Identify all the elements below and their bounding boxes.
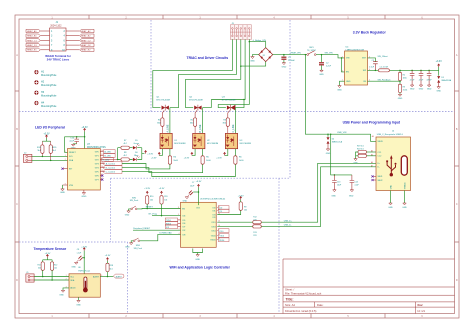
junction: [42, 276, 44, 278]
svg-text:Size: A4: Size: A4: [285, 303, 295, 307]
svg-text:TS_SPST: TS_SPST: [307, 50, 317, 52]
svg-text:A7: A7: [371, 164, 373, 167]
ground: [282, 63, 285, 65]
label RXD0: [165, 221, 177, 225]
hierarchical label HEAT_E1: [26, 48, 40, 52]
svg-text:0_Bridge_24V: 0_Bridge_24V: [253, 39, 267, 42]
svg-text:L1 4.7uH: L1 4.7uH: [380, 67, 389, 69]
svg-text:SW_Feedback: SW_Feedback: [378, 79, 391, 81]
svg-text:2.2uF: 2.2uF: [326, 66, 332, 68]
svg-text:R21: R21: [38, 264, 41, 266]
power +3.3V: [83, 248, 85, 251]
optocoupler U1 MOC3063M: [160, 133, 186, 148]
svg-text:USB Power and Programming Inpu: USB Power and Programming Input: [343, 121, 401, 125]
svg-text:GND: GND: [331, 195, 336, 197]
junction dots: [42, 156, 44, 158]
svg-text:TRIAC and Driver Circuits: TRIAC and Driver Circuits: [187, 56, 229, 60]
svg-text:SW_Push: SW_Push: [130, 200, 138, 202]
LED chain rail right: [142, 148, 145, 160]
wire SW3 to GND: [131, 241, 133, 243]
power +3.3V: [146, 191, 148, 194]
wire pullup join: [42, 138, 50, 141]
svg-text:GND: GND: [419, 89, 424, 91]
svg-text:RXD0: RXD0: [219, 240, 224, 242]
resistor R6 1k00: [234, 149, 236, 156]
H1 text: [41, 70, 57, 77]
svg-text:GND: GND: [349, 195, 354, 197]
wire RESET: [137, 208, 180, 210]
svg-text:TXD0: TXD0: [166, 220, 171, 222]
svg-text:19: 19: [218, 238, 220, 240]
svg-text:USB_D+: USB_D+: [284, 220, 293, 222]
power +3.3V: [197, 184, 199, 187]
wire bridge plus rail: [273, 54, 307, 56]
power +3.3V: [438, 64, 440, 67]
wire IO3 pullup: [217, 210, 240, 214]
svg-text:GND: GND: [282, 67, 287, 69]
svg-text:D: D: [16, 279, 18, 282]
ground: [427, 85, 430, 87]
svg-text:HEAT_C2: HEAT_C2: [81, 39, 91, 42]
svg-text:LMR51430XDDCR: LMR51430XDDCR: [346, 50, 365, 52]
svg-text:A6: A6: [371, 161, 373, 164]
svg-text:IO8: IO8: [182, 234, 185, 236]
no-connect GP6 GP7: [101, 175, 103, 177]
wire A_Control run: [122, 164, 170, 169]
svg-text:ALERT: ALERT: [93, 275, 100, 278]
junction: [83, 257, 85, 259]
ground: [333, 190, 336, 192]
svg-text:GND: GND: [71, 266, 76, 268]
J4 shield pins to GND: [391, 191, 405, 204]
U5 right pin stubs: [217, 207, 218, 239]
triac Q1: [156, 96, 170, 118]
svg-text:R22: R22: [54, 264, 57, 266]
svg-text:Peripheral_RESET: Peripheral_RESET: [133, 228, 151, 230]
connector J1: [50, 21, 67, 51]
svg-text:IO4: IO4: [182, 216, 185, 218]
svg-text:Id: 1/1: Id: 1/1: [418, 309, 426, 313]
svg-text:IO9: IO9: [166, 227, 169, 229]
wire C10 to GND: [73, 143, 77, 146]
ground: [251, 57, 254, 59]
svg-text:R18: R18: [110, 265, 113, 267]
svg-text:IO9: IO9: [212, 217, 215, 219]
svg-text:Temperature Sensor: Temperature Sensor: [34, 247, 67, 251]
border zone ticks left: [15, 91, 19, 242]
resistor R9: [239, 202, 242, 210]
svg-text:R13: R13: [253, 232, 256, 234]
border zone ticks top: [89, 15, 385, 19]
label R_LED: [102, 158, 114, 162]
ground: [72, 144, 75, 146]
junction: [327, 133, 329, 135]
svg-text:HEAT_B1: HEAT_B1: [27, 35, 37, 38]
svg-text:3V3: 3V3: [196, 207, 199, 209]
svg-text:GND: GND: [59, 294, 64, 296]
svg-text:SW2: SW2: [132, 198, 136, 200]
svg-text:IO2: IO2: [182, 230, 185, 232]
svg-text:3.3V Buck Regulator: 3.3V Buck Regulator: [353, 31, 387, 35]
svg-text:+3.3V: +3.3V: [144, 188, 150, 190]
wire CC pulldown join: [356, 152, 358, 159]
wire USB_VIN: [305, 55, 376, 142]
svg-text:RESET: RESET: [146, 207, 154, 209]
svg-text:C8: C8: [77, 249, 79, 251]
svg-text:DOWNLOAD: DOWNLOAD: [160, 231, 173, 234]
svg-text:RESET: RESET: [69, 152, 76, 154]
resistor R2 divider top: [399, 70, 401, 84]
J4 SBU pin stubs no-connect: [373, 176, 377, 180]
svg-text:470nF: 470nF: [427, 80, 433, 82]
svg-text:R2: R2: [403, 75, 405, 77]
svg-text:+3.3V: +3.3V: [43, 134, 50, 136]
border zone ticks right: [455, 91, 460, 242]
svg-text:IO7: IO7: [182, 227, 185, 229]
wire VSS to GND: [62, 185, 64, 189]
power +3.3V VDD rail: [84, 128, 86, 131]
svg-text:IO10: IO10: [211, 230, 215, 232]
svg-text:+3.3V: +3.3V: [216, 157, 222, 159]
svg-text:SW_Push: SW_Push: [134, 248, 142, 250]
resistor R3 360: [226, 118, 229, 126]
mounting hole H1: [34, 70, 38, 74]
svg-text:9: 9: [178, 214, 179, 216]
svg-text:5k1: 5k1: [38, 268, 41, 270]
capacitor C6: [427, 70, 433, 85]
diode D3 TVS: [437, 70, 452, 86]
label TXD0: [165, 218, 177, 222]
svg-text:SW3: SW3: [136, 245, 140, 247]
svg-text:HEAT_B2: HEAT_B2: [81, 35, 91, 38]
svg-text:SDA: SDA: [69, 159, 74, 162]
svg-text:C_LINE: C_LINE: [233, 124, 235, 133]
power +3.3V: [191, 152, 193, 155]
svg-text:GND: GND: [125, 246, 130, 248]
resistor R15: [49, 145, 52, 153]
svg-text:2200uF: 2200uF: [288, 60, 296, 62]
wire A_LINE: [169, 108, 171, 134]
pin numbers J4: [371, 135, 374, 168]
svg-text:2: 2: [369, 80, 370, 82]
svg-text:IO3: IO3: [212, 214, 215, 216]
junction: [146, 208, 148, 210]
capacitor C10: [69, 137, 79, 144]
resistor R7: [121, 146, 129, 149]
svg-text:IO1: IO1: [212, 211, 215, 213]
svg-text:C13: C13: [337, 181, 340, 183]
junction: [334, 174, 336, 176]
svg-text:SCL: SCL: [70, 276, 74, 278]
svg-text:+3.3V: +3.3V: [196, 181, 202, 183]
ground: [320, 70, 323, 72]
svg-text:R9: R9: [244, 207, 246, 209]
label A_LED: [104, 150, 116, 154]
pin numbers U7: [65, 150, 103, 186]
svg-text:C3: C3: [372, 60, 374, 62]
svg-text:10k: 10k: [150, 199, 153, 201]
capacitor C8: [77, 249, 85, 262]
mounting hole H2: [34, 80, 38, 84]
wire BST to C3: [368, 58, 376, 62]
capacitor C1: [281, 55, 295, 63]
ground: [354, 159, 357, 161]
triac Q3: [222, 96, 236, 118]
LED chain rail left: [117, 148, 119, 160]
USB-C capsule icon: [401, 156, 407, 175]
svg-text:HEAT_E2: HEAT_E2: [81, 49, 91, 52]
label IO0: [218, 206, 229, 210]
svg-text:ALERT: ALERT: [116, 275, 123, 278]
capacitor C4: [410, 70, 415, 85]
svg-text:GND: GND: [390, 184, 392, 189]
svg-text:IO0: IO0: [212, 207, 215, 209]
wire B_LINE: [202, 108, 204, 134]
svg-text:GND: GND: [346, 81, 351, 83]
hierarchical label A_Control: [103, 162, 122, 166]
hierarchical label C_Control: [103, 170, 122, 174]
H4 text: [41, 101, 57, 108]
svg-text:SW_VIN: SW_VIN: [325, 53, 333, 55]
svg-text:5: 5: [369, 56, 370, 58]
wire USB_D+: [217, 163, 376, 222]
svg-text:u1uF: u1uF: [69, 140, 74, 142]
IC U6 temperature sensor: [69, 274, 100, 297]
wire U4 GND pin: [340, 81, 345, 85]
svg-text:MountingHole: MountingHole: [41, 74, 57, 77]
wire header feeds: [153, 39, 250, 107]
svg-text:MCP23008-xP/SS: MCP23008-xP/SS: [87, 147, 106, 149]
ground: [130, 243, 133, 245]
wire USB_D-: [217, 167, 376, 227]
svg-text:TXD0: TXD0: [211, 235, 216, 237]
svg-text:USB_C_Receptacle USB2.0: USB_C_Receptacle USB2.0: [377, 133, 404, 136]
capacitor C5: [419, 70, 424, 85]
label TXD: [218, 234, 229, 238]
ground: [82, 193, 85, 195]
svg-text:ADD0: ADD0: [70, 287, 75, 290]
H3 text: [41, 91, 57, 98]
hierarchical label HEAT_D1: [26, 43, 40, 47]
svg-text:GND: GND: [326, 153, 331, 155]
power +3.3V: [158, 152, 160, 155]
ground: [326, 149, 329, 151]
svg-text:U5 ESP32-C3-WROOM-02: U5 ESP32-C3-WROOM-02: [200, 198, 226, 200]
svg-text:+3.3V: +3.3V: [184, 157, 190, 159]
svg-text:MOC3063M: MOC3063M: [207, 143, 218, 145]
svg-text:SW: SW: [363, 70, 366, 72]
U6 pin names: [70, 275, 99, 289]
svg-text:IO19: IO19: [211, 222, 215, 224]
svg-text:CC1: CC1: [378, 152, 382, 154]
junction: [249, 41, 251, 43]
svg-text:15: 15: [101, 170, 103, 172]
svg-text:IO18: IO18: [211, 226, 215, 228]
wire C_Control run: [122, 164, 235, 176]
U5 pin names: [182, 207, 215, 241]
svg-text:BT137S-600E: BT137S-600E: [222, 100, 236, 102]
svg-text:Green: Green: [134, 143, 140, 145]
hierarchical label HEAT_D2: [80, 43, 94, 47]
resistor R14: [41, 145, 44, 153]
wire MT1 drops: [153, 70, 226, 107]
resistor R8: [121, 158, 129, 161]
power +3.3V: [46, 255, 48, 258]
junction: [321, 54, 323, 56]
pin numbers U5: [178, 206, 220, 240]
svg-text:15: 15: [218, 221, 220, 223]
svg-text:HEAT_D2: HEAT_D2: [81, 44, 91, 47]
wire V+ rail: [83, 251, 85, 274]
svg-text:HEAT_C1: HEAT_C1: [27, 39, 37, 42]
J1 caption: [45, 54, 71, 62]
svg-text:13: 13: [101, 162, 103, 164]
svg-text:BT137S-600E: BT137S-600E: [156, 100, 170, 102]
wire opto U2 pins to +3.3V: [192, 149, 195, 156]
switch SW1: [307, 47, 317, 55]
svg-text:C: C: [456, 203, 458, 206]
svg-text:GND: GND: [427, 89, 432, 91]
IC U4 regulator: [345, 51, 368, 85]
svg-text:GND: GND: [183, 200, 188, 202]
svg-text:HEAT_E1: HEAT_E1: [27, 49, 37, 52]
wire DOWNLOAD: [140, 234, 181, 240]
svg-text:D3: D3: [441, 77, 443, 79]
svg-text:100k: 100k: [403, 78, 407, 80]
svg-text:18: 18: [218, 234, 220, 236]
wire MT2 rises: [170, 74, 244, 107]
svg-text:GND: GND: [319, 74, 324, 76]
J4 pin names: [378, 141, 384, 182]
svg-text:A_LED: A_LED: [104, 151, 111, 154]
svg-text:3: 3: [342, 56, 343, 58]
ground: [185, 197, 188, 199]
wire bridge AC bottom: [241, 62, 266, 67]
svg-text:D: D: [456, 279, 458, 282]
optocoupler U2 MOC3063M: [193, 133, 219, 148]
svg-text:SMBJ5.0CA: SMBJ5.0CA: [332, 141, 343, 144]
svg-text:R3: R3: [403, 87, 405, 89]
svg-text:VSS: VSS: [69, 185, 74, 187]
U7 right pin stubs: [100, 152, 117, 180]
hierarchical label HEAT_A2: [80, 29, 94, 33]
svg-text:9: 9: [65, 184, 66, 186]
svg-text:Sheet: /: Sheet: /: [285, 288, 295, 292]
ground: [127, 211, 130, 213]
svg-text:17: 17: [218, 229, 220, 231]
svg-text:RXD0: RXD0: [166, 223, 171, 225]
svg-text:Title:: Title:: [286, 297, 294, 301]
svg-text:A_Control: A_Control: [106, 163, 116, 166]
junction: [107, 276, 109, 278]
mounting hole H4: [34, 101, 38, 105]
J1 pin numbers: [51, 31, 66, 52]
svg-text:C: C: [16, 203, 18, 206]
wire ALERT: [100, 276, 113, 278]
wire VDD rail: [65, 131, 85, 152]
svg-text:File: Thermostat-V2.kicad_sch: File: Thermostat-V2.kicad_sch: [285, 292, 322, 296]
svg-text:R10: R10: [150, 196, 153, 198]
label IO1: [218, 209, 229, 213]
label IO9: [165, 225, 177, 229]
inductor L1: [378, 69, 389, 72]
U7 left pin stubs: [63, 169, 68, 185]
resistor R18: [106, 263, 109, 271]
wire EN branch: [342, 58, 345, 72]
svg-text:USB_D-: USB_D-: [284, 225, 292, 227]
svg-text:IO6: IO6: [182, 223, 185, 225]
wire SW rail: [368, 69, 439, 71]
ground: [77, 300, 80, 302]
svg-text:C7: C7: [192, 182, 194, 184]
svg-text:B_LINE: B_LINE: [200, 124, 202, 132]
svg-text:IO10: IO10: [219, 231, 223, 233]
wire SDA: [32, 159, 68, 161]
svg-text:31.6k: 31.6k: [403, 90, 408, 92]
svg-text:4: 4: [342, 70, 343, 72]
connector J5: [26, 272, 34, 282]
ground: [410, 85, 413, 87]
svg-text:C_Control: C_Control: [106, 171, 116, 174]
svg-text:GND: GND: [81, 196, 86, 198]
svg-text:+3.3V: +3.3V: [238, 196, 244, 198]
connector J4 USB-C receptacle: [376, 137, 411, 191]
svg-text:GND: GND: [76, 304, 81, 306]
USB trident icon: [386, 155, 396, 176]
wire bridge minus to GND: [253, 55, 259, 57]
svg-text:GND: GND: [250, 60, 255, 62]
power +3.3V: [45, 135, 47, 138]
svg-text:BT_Prog: BT_Prog: [149, 213, 158, 216]
svg-text:Rev:: Rev:: [418, 303, 424, 307]
wire VBUS caps rail: [331, 134, 352, 175]
wire bridge AC top: [249, 42, 265, 48]
svg-text:IO5: IO5: [182, 220, 185, 222]
wire VDD to U5: [198, 187, 200, 205]
svg-text:MountingHole: MountingHole: [41, 84, 57, 87]
label ALERT: [113, 274, 124, 278]
optocoupler U3 MOC3063M: [225, 133, 251, 148]
LED D5: [133, 144, 140, 149]
resistor R5 1k00: [202, 149, 204, 156]
title block outline: [283, 259, 455, 314]
IC U7 MCP23008: [68, 149, 101, 191]
wire U6 GND pin: [63, 288, 69, 291]
wire B_Control run: [122, 164, 203, 173]
resistor R20 CC2: [357, 149, 376, 158]
wire opto U3 pins to +3.3V: [225, 149, 228, 156]
resistor R13: [253, 225, 261, 228]
resistor R19 CC1: [357, 145, 376, 153]
wire chain1: [118, 147, 142, 149]
svg-text:LED I/O Peripheral: LED I/O Peripheral: [35, 126, 65, 130]
svg-text:MountingHole: MountingHole: [41, 105, 57, 108]
wire I2C SCL: [34, 276, 69, 278]
svg-text:17: 17: [101, 178, 103, 180]
svg-text:SHIELD: SHIELD: [404, 182, 406, 189]
svg-text:B_Control: B_Control: [106, 167, 116, 170]
H2 text: [41, 81, 57, 88]
switch SW3: [133, 238, 142, 250]
svg-text:3: 3: [179, 229, 180, 231]
svg-text:B5: B5: [371, 154, 373, 156]
svg-text:13: 13: [218, 209, 220, 211]
resistor R11: [160, 196, 163, 204]
svg-text:GND: GND: [410, 89, 415, 91]
connector J2: [23, 152, 32, 162]
wire Peripheral_RESET: [133, 229, 181, 231]
svg-text:GND: GND: [337, 89, 342, 91]
